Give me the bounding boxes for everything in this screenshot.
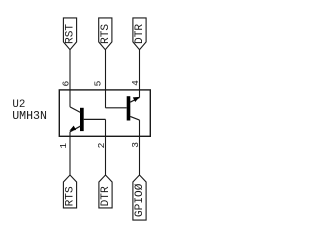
svg-text:1: 1 bbox=[58, 143, 69, 149]
transistor U2A base lead bbox=[84, 118, 106, 120]
transistor U2B emitter arrow bbox=[133, 97, 140, 102]
svg-text:RTS: RTS bbox=[65, 186, 77, 206]
label flag RTS (top pin 5) bbox=[99, 18, 112, 50]
transistor U2A emitter diagonal bbox=[70, 126, 80, 132]
label flag RST (top pin 6) bbox=[63, 18, 76, 50]
svg-text:UMH3N: UMH3N bbox=[12, 110, 47, 123]
transistor U2A collector diagonal bbox=[70, 107, 80, 113]
svg-text:6: 6 bbox=[61, 81, 72, 87]
label flag DTR (bottom pin 2) bbox=[99, 175, 112, 208]
transistor U2A emitter arrow bbox=[69, 126, 76, 131]
transistor U2B emitter diagonal bbox=[130, 98, 139, 103]
svg-text:3: 3 bbox=[130, 142, 141, 148]
wire pin 1 to RTS bbox=[69, 132, 71, 175]
transistor U2B collector diagonal bbox=[130, 116, 139, 120]
wire pin 4 to DTR bbox=[139, 50, 141, 98]
wire pin 2 to DTR bbox=[105, 119, 107, 175]
svg-text:4: 4 bbox=[130, 80, 141, 86]
label flag RTS (bottom pin 1) bbox=[63, 175, 76, 208]
component body U2 rectangle bbox=[59, 90, 150, 136]
svg-text:DTR: DTR bbox=[100, 186, 112, 206]
svg-text:RTS: RTS bbox=[100, 24, 112, 44]
wire pin 5 to RTS bbox=[105, 50, 107, 108]
svg-text:GPIOØ: GPIOØ bbox=[134, 183, 146, 217]
wire pin 6 to RST bbox=[69, 50, 71, 107]
label flag GPIO0 (bottom pin 3) bbox=[133, 175, 146, 220]
transistor U2B base bar bbox=[127, 96, 131, 120]
svg-text:5: 5 bbox=[93, 80, 104, 86]
label flag DTR (top pin 4) bbox=[133, 18, 146, 50]
transistor U2A base bar bbox=[80, 108, 84, 131]
svg-text:RST: RST bbox=[65, 24, 77, 44]
svg-text:DTR: DTR bbox=[134, 24, 146, 44]
svg-text:2: 2 bbox=[96, 142, 107, 148]
wire pin 3 to GPIO0 bbox=[139, 120, 141, 175]
transistor U2B base lead bbox=[106, 107, 127, 109]
